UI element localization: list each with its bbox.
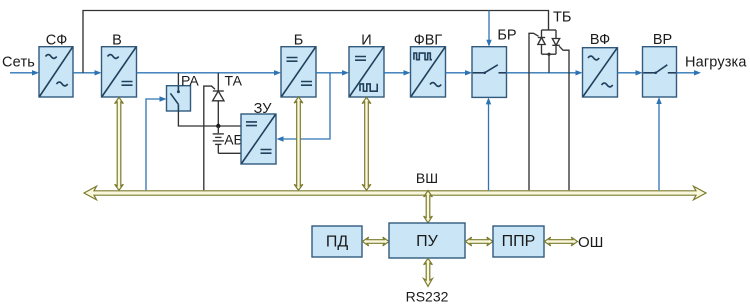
svg-text:ВР: ВР <box>653 32 672 48</box>
svg-text:ОШ: ОШ <box>578 234 603 251</box>
svg-text:В: В <box>112 33 122 49</box>
wire mains input to СФ <box>10 70 39 75</box>
block И (inverter) <box>349 33 384 98</box>
wire БР to ВФ <box>507 70 583 75</box>
wire РА bottom to battery junction <box>178 111 241 126</box>
svg-text:АБ: АБ <box>224 132 243 148</box>
wire battery bottom to ЗУ <box>218 152 241 154</box>
wire control bus to БР bottom <box>486 97 491 190</box>
wire bypass rail (top) <box>83 11 549 73</box>
bus link ПД to ПУ <box>362 237 389 246</box>
block В (rectifier) <box>102 33 137 98</box>
svg-text:РА: РА <box>181 73 199 89</box>
wire ТА gate to control bus <box>204 86 215 190</box>
block СФ (network filter) <box>39 33 73 98</box>
svg-text:ВШ: ВШ <box>416 170 438 186</box>
bus link ВШ to ПУ <box>424 191 433 223</box>
wire ТБ right thyristor gate to control bus <box>559 46 569 190</box>
bus link ППР to ОШ <box>544 237 577 246</box>
block ЗУ (battery charger) <box>241 101 276 164</box>
wire ФВГ to БР <box>446 70 473 75</box>
svg-text:И: И <box>361 33 371 49</box>
wire ТБ left thyristor gate to control bus <box>529 33 539 190</box>
svg-text:ПД: ПД <box>326 234 349 251</box>
block БР (bypass switch) <box>472 28 517 98</box>
svg-text:ППР: ППР <box>502 233 536 250</box>
svg-text:RS232: RS232 <box>406 289 449 305</box>
svg-text:Нагрузка: Нагрузка <box>685 55 747 71</box>
wire ВР to load <box>677 70 702 75</box>
node battery junction <box>216 124 220 128</box>
wire И to ФВГ <box>384 70 411 75</box>
block ПУ (control unit) <box>389 223 465 258</box>
block Б (booster DC-DC) <box>281 33 316 98</box>
svg-text:ВФ: ВФ <box>590 32 610 48</box>
wire DC link tap to ЗУ input <box>277 73 331 142</box>
bus link ПУ to RS232 <box>424 258 433 286</box>
wire bypass drop into БР top <box>486 11 491 47</box>
svg-text:БР: БР <box>497 28 516 44</box>
wire control bus to РА <box>146 96 167 190</box>
svg-text:ПУ: ПУ <box>416 233 439 250</box>
thyristor ТА (battery thyristor) <box>213 73 243 127</box>
wire ВФ to ВР <box>618 70 643 75</box>
bus link В to ВШ <box>115 97 124 190</box>
block ВФ (output filter) <box>583 32 618 97</box>
svg-text:Сеть: Сеть <box>2 55 35 71</box>
block ППР (relay interface) <box>493 226 544 257</box>
wire Б to И <box>316 70 349 75</box>
svg-text:ТА: ТА <box>225 73 243 89</box>
bus ВШ (internal control bus) <box>84 170 706 200</box>
wire В to Б (DC link) <box>137 70 282 75</box>
svg-text:ТБ: ТБ <box>553 10 571 26</box>
battery АБ <box>213 126 243 153</box>
svg-text:ЗУ: ЗУ <box>254 101 273 117</box>
block ФВГ (harmonic filter) <box>411 33 446 98</box>
svg-text:ФВГ: ФВГ <box>414 33 443 49</box>
wire СФ to В <box>73 70 102 75</box>
thyristor pair ТБ (static bypass) <box>538 10 572 73</box>
switch РА (battery disconnector) <box>167 73 200 112</box>
svg-text:СФ: СФ <box>46 33 68 49</box>
block ПД (display panel) <box>312 226 362 257</box>
bus link ПУ to ППР <box>465 237 493 246</box>
block ВР (output switch) <box>643 32 677 97</box>
svg-text:Б: Б <box>294 33 304 49</box>
bus link Б to ВШ <box>294 97 303 190</box>
wire control bus to ВР bottom <box>656 97 661 190</box>
bus link И to ВШ <box>362 97 371 190</box>
